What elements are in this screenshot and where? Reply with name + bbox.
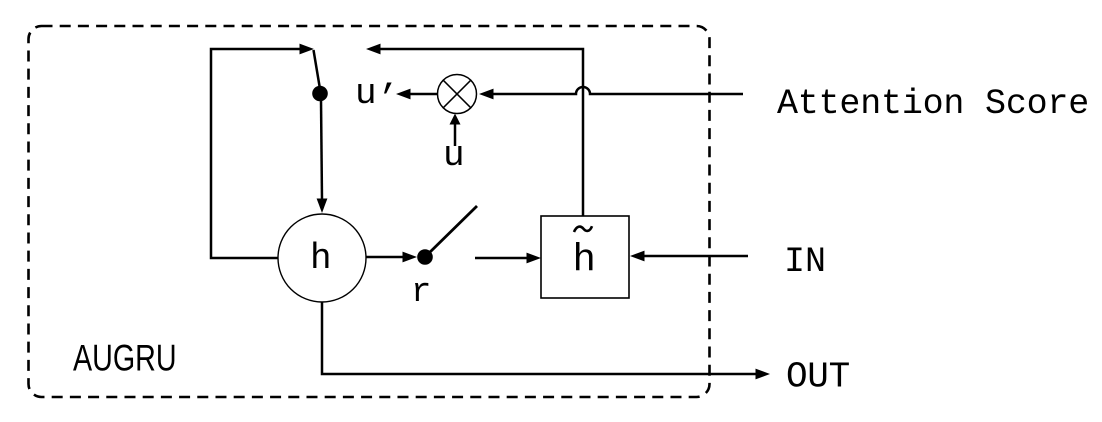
node: hidden state h circle bbox=[278, 214, 366, 302]
wire: IN into h-tilde with arrowhead bbox=[643, 255, 748, 258]
wire: junction dot down into h with arrowhead bbox=[321, 100, 322, 200]
svg-text:r: r bbox=[411, 274, 431, 312]
wire: h-tilde output up and left with arrowhead bbox=[379, 49, 583, 216]
svg-text:IN: IN bbox=[784, 242, 826, 282]
wire: recurrent feedback loop (h output back to switch) bbox=[211, 49, 301, 258]
switch arm upper (from feedback arrow to junction dot) bbox=[314, 50, 321, 89]
wire: attention score line with hop over vertical wire, arrow into multiplier bbox=[492, 87, 743, 94]
svg-text:u: u bbox=[355, 73, 377, 114]
switch arm (r switch, open) bbox=[427, 206, 477, 255]
svg-text:’: ’ bbox=[377, 79, 399, 120]
multiplier: circle-with-X (attention gating) bbox=[438, 75, 477, 114]
wire: multiplier output to u' with arrowhead bbox=[409, 93, 437, 96]
svg-text:h: h bbox=[310, 238, 332, 279]
node: reset switch junction dot (r) bbox=[417, 249, 433, 265]
svg-text:OUT: OUT bbox=[786, 357, 850, 398]
svg-text:AUGRU: AUGRU bbox=[73, 338, 177, 379]
svg-text:u: u bbox=[443, 135, 465, 176]
AUGRU cell dashed boundary bbox=[29, 26, 710, 397]
wire: h down and right to OUT with arrowhead bbox=[322, 302, 757, 374]
svg-text:Attention Score: Attention Score bbox=[777, 84, 1089, 124]
block: candidate h-tilde box bbox=[541, 216, 629, 298]
wire: u up into multiplier with arrowhead bbox=[454, 124, 457, 146]
svg-text:h: h bbox=[573, 239, 596, 283]
wire: h output to reset switch dot with arrowhead bbox=[366, 256, 404, 259]
node: switch junction dot (u') bbox=[312, 86, 328, 102]
wire: switch to h-tilde box with arrowhead bbox=[475, 257, 528, 260]
